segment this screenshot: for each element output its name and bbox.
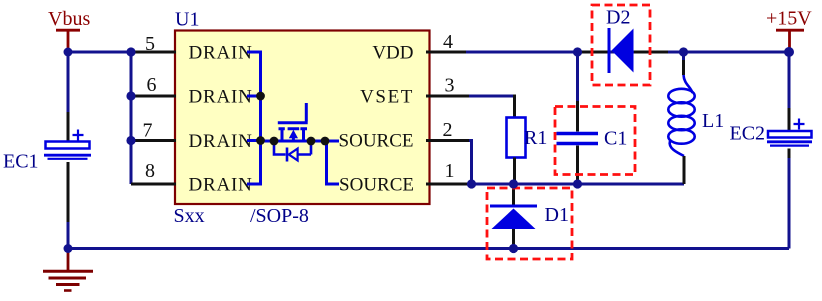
wire EC2 top lead: [788, 52, 791, 108]
junction node pin5: [126, 47, 135, 56]
wire pin7 stub: [131, 139, 176, 142]
svg-text:VDD: VDD: [372, 43, 413, 64]
capacitor EC1: [44, 130, 91, 159]
svg-text:5: 5: [145, 33, 155, 55]
transistor Q1 internal MOSFET drain bus: [247, 52, 261, 184]
junction node pin2/source: [467, 179, 476, 188]
wire pin6 stub: [131, 95, 176, 98]
box C1 red dashed: [555, 107, 635, 175]
transistor Q1 channel: [279, 129, 308, 142]
svg-text:+15V: +15V: [766, 8, 812, 30]
wire Vbus to pin5 column: [68, 51, 131, 54]
svg-text:DRAIN: DRAIN: [189, 131, 253, 152]
box D2 red dashed: [592, 5, 650, 85]
svg-text:U1: U1: [175, 9, 199, 31]
svg-text:DRAIN: DRAIN: [189, 175, 253, 196]
diode body diode of Q1: [274, 141, 311, 162]
wire VDD rail to +15V: [466, 51, 789, 54]
svg-text:4: 4: [443, 31, 453, 53]
wire C1 bottom lead: [576, 146, 579, 185]
junction dots inside U1: [256, 92, 265, 101]
junction node pin7: [126, 136, 135, 145]
box D1 red dashed: [487, 188, 572, 259]
junction node C1 top: [573, 47, 582, 56]
op-amp U1 (IC body SOP-8): [175, 31, 430, 205]
ground: [43, 250, 93, 291]
svg-text:8: 8: [145, 160, 155, 182]
svg-text:/SOP-8: /SOP-8: [250, 205, 309, 227]
svg-text:D1: D1: [545, 204, 569, 226]
diode D1: [490, 186, 537, 249]
svg-text:Vbus: Vbus: [48, 8, 90, 30]
wire pin8 stub: [131, 183, 176, 186]
wire pin3 to R1: [469, 95, 515, 98]
svg-text:6: 6: [147, 74, 157, 96]
diode D2: [609, 28, 634, 73]
junction node Vbus: [64, 48, 73, 57]
wire pin3 stub: [426, 95, 469, 98]
inductor L1: [668, 52, 694, 184]
junction node C1 bottom: [573, 179, 582, 188]
svg-text:Sxx: Sxx: [174, 205, 205, 227]
wire pin5 stub: [131, 51, 176, 54]
capacitor EC2: [767, 119, 812, 146]
wire bottom ground rail: [68, 247, 789, 250]
junction node L1 top: [679, 47, 688, 56]
node Vbus: [48, 8, 90, 48]
wire EC1 top lead: [67, 52, 70, 112]
junction node EC1 bottom: [64, 244, 73, 253]
wire EC1 bottom lead: [67, 162, 70, 222]
svg-text:DRAIN: DRAIN: [189, 43, 253, 64]
wire D2 leads (black): [578, 51, 668, 54]
node +15V: [766, 8, 812, 49]
wire pin1 stub: [426, 183, 468, 186]
junction node R1/D1: [509, 179, 518, 188]
wire left bus vertical: [130, 52, 133, 184]
svg-text:L1: L1: [702, 110, 724, 132]
svg-text:EC2: EC2: [730, 123, 766, 145]
svg-text:3: 3: [445, 75, 455, 97]
capacitor C1: [557, 134, 599, 144]
wire pin2 drop: [469, 141, 472, 185]
svg-text:SOURCE: SOURCE: [339, 175, 414, 196]
svg-text:C1: C1: [604, 128, 627, 150]
svg-text:EC1: EC1: [3, 151, 39, 173]
svg-text:VSET: VSET: [360, 87, 414, 108]
svg-text:R1: R1: [524, 127, 547, 149]
svg-text:7: 7: [143, 120, 153, 142]
svg-text:SOURCE: SOURCE: [339, 130, 414, 151]
transistor Q1 gate: [278, 103, 308, 123]
transistor Q1 source rail: [261, 140, 338, 143]
wire source pin1 drop: [327, 141, 340, 184]
wire R1 bottom lead: [513, 158, 516, 185]
junction node D1 bottom: [509, 244, 518, 253]
wire source pin2 dash: [337, 140, 339, 143]
svg-text:2: 2: [443, 119, 453, 141]
svg-text:1: 1: [445, 160, 455, 182]
junction node pin6: [126, 91, 135, 100]
wire EC2 bottom lead: [788, 149, 791, 159]
wire pin4 stub: [426, 51, 466, 54]
wire source node rail: [468, 183, 684, 186]
svg-text:D2: D2: [606, 7, 630, 29]
junction node +15V: [784, 47, 794, 57]
resistor R1: [507, 118, 526, 158]
svg-text:DRAIN: DRAIN: [189, 87, 253, 108]
wire pin2 stub: [426, 139, 469, 142]
wire C1 top lead: [576, 52, 579, 101]
